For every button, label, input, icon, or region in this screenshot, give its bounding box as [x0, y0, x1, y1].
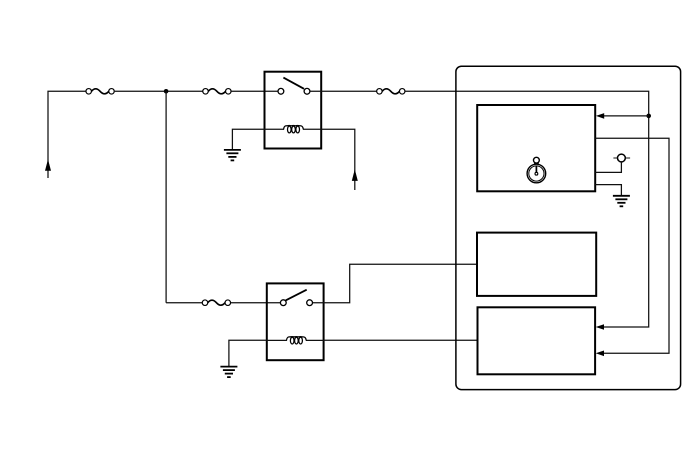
relay K2 box	[267, 283, 324, 360]
wire: relay K1 coil right lead down to feed arrow	[321, 129, 355, 190]
wire: relay K1 coil left lead to ground	[232, 129, 264, 149]
power feed arrow A2	[352, 169, 358, 181]
control module outline (rounded)	[456, 66, 681, 389]
wire: timer box to ground G3	[595, 185, 621, 196]
power feed arrow A1	[45, 159, 51, 170]
node junction dot on right drop	[646, 114, 651, 119]
relay K2 coil L2	[267, 337, 324, 344]
arrowhead into bottom box right side (upper)	[596, 324, 604, 330]
ground G2	[220, 367, 237, 378]
stopwatch icon U1	[527, 157, 546, 183]
wire: fuse F3 to control unit right-side drop with feed to bottom box	[405, 91, 648, 327]
node junction dot on top bus	[164, 89, 169, 94]
wire: timer box output to right drop 2 and into bottom box	[595, 138, 669, 353]
relay K1 switch contacts and blade	[278, 78, 310, 95]
wire: riser from junction down to lower bus	[165, 91, 167, 302]
relay K1 box	[265, 72, 322, 149]
wire: fuse F4 to relay K2 common terminal	[231, 302, 283, 304]
wire: lower bus from riser to fuse F4	[166, 302, 205, 304]
ground G1	[224, 150, 241, 161]
wire: top bus fuse F1 to fuse F2	[115, 90, 206, 92]
relay K2 switch contacts and blade	[280, 290, 312, 306]
arrowhead into timer box right side	[596, 113, 604, 119]
fuse F2	[203, 89, 231, 95]
ground G3	[613, 196, 630, 207]
wire: battery feed riser and top bus left segment	[48, 91, 89, 178]
timer box	[477, 105, 595, 191]
wire: relay K1 output to fuse F3	[310, 90, 379, 92]
middle box	[477, 233, 596, 296]
fuse F4	[202, 300, 230, 306]
bottom box	[478, 307, 596, 374]
wire: indicator to timer box	[595, 162, 621, 173]
fuse F3	[377, 89, 405, 95]
wire: branch into timer box	[604, 115, 649, 117]
indicator terminal I1 (circle with bar)	[613, 154, 630, 162]
arrowhead into bottom box right side (lower)	[596, 351, 604, 357]
wire: fuse F2 to relay K1 common terminal	[231, 90, 281, 92]
wire: relay K2 coil right lead to bottom box	[324, 339, 478, 341]
fuse F1	[86, 89, 114, 95]
wire: relay K2 output up and right to middle box	[313, 264, 477, 303]
wire: relay K2 coil left lead to ground	[229, 340, 267, 366]
relay K1 coil L1	[265, 126, 322, 133]
